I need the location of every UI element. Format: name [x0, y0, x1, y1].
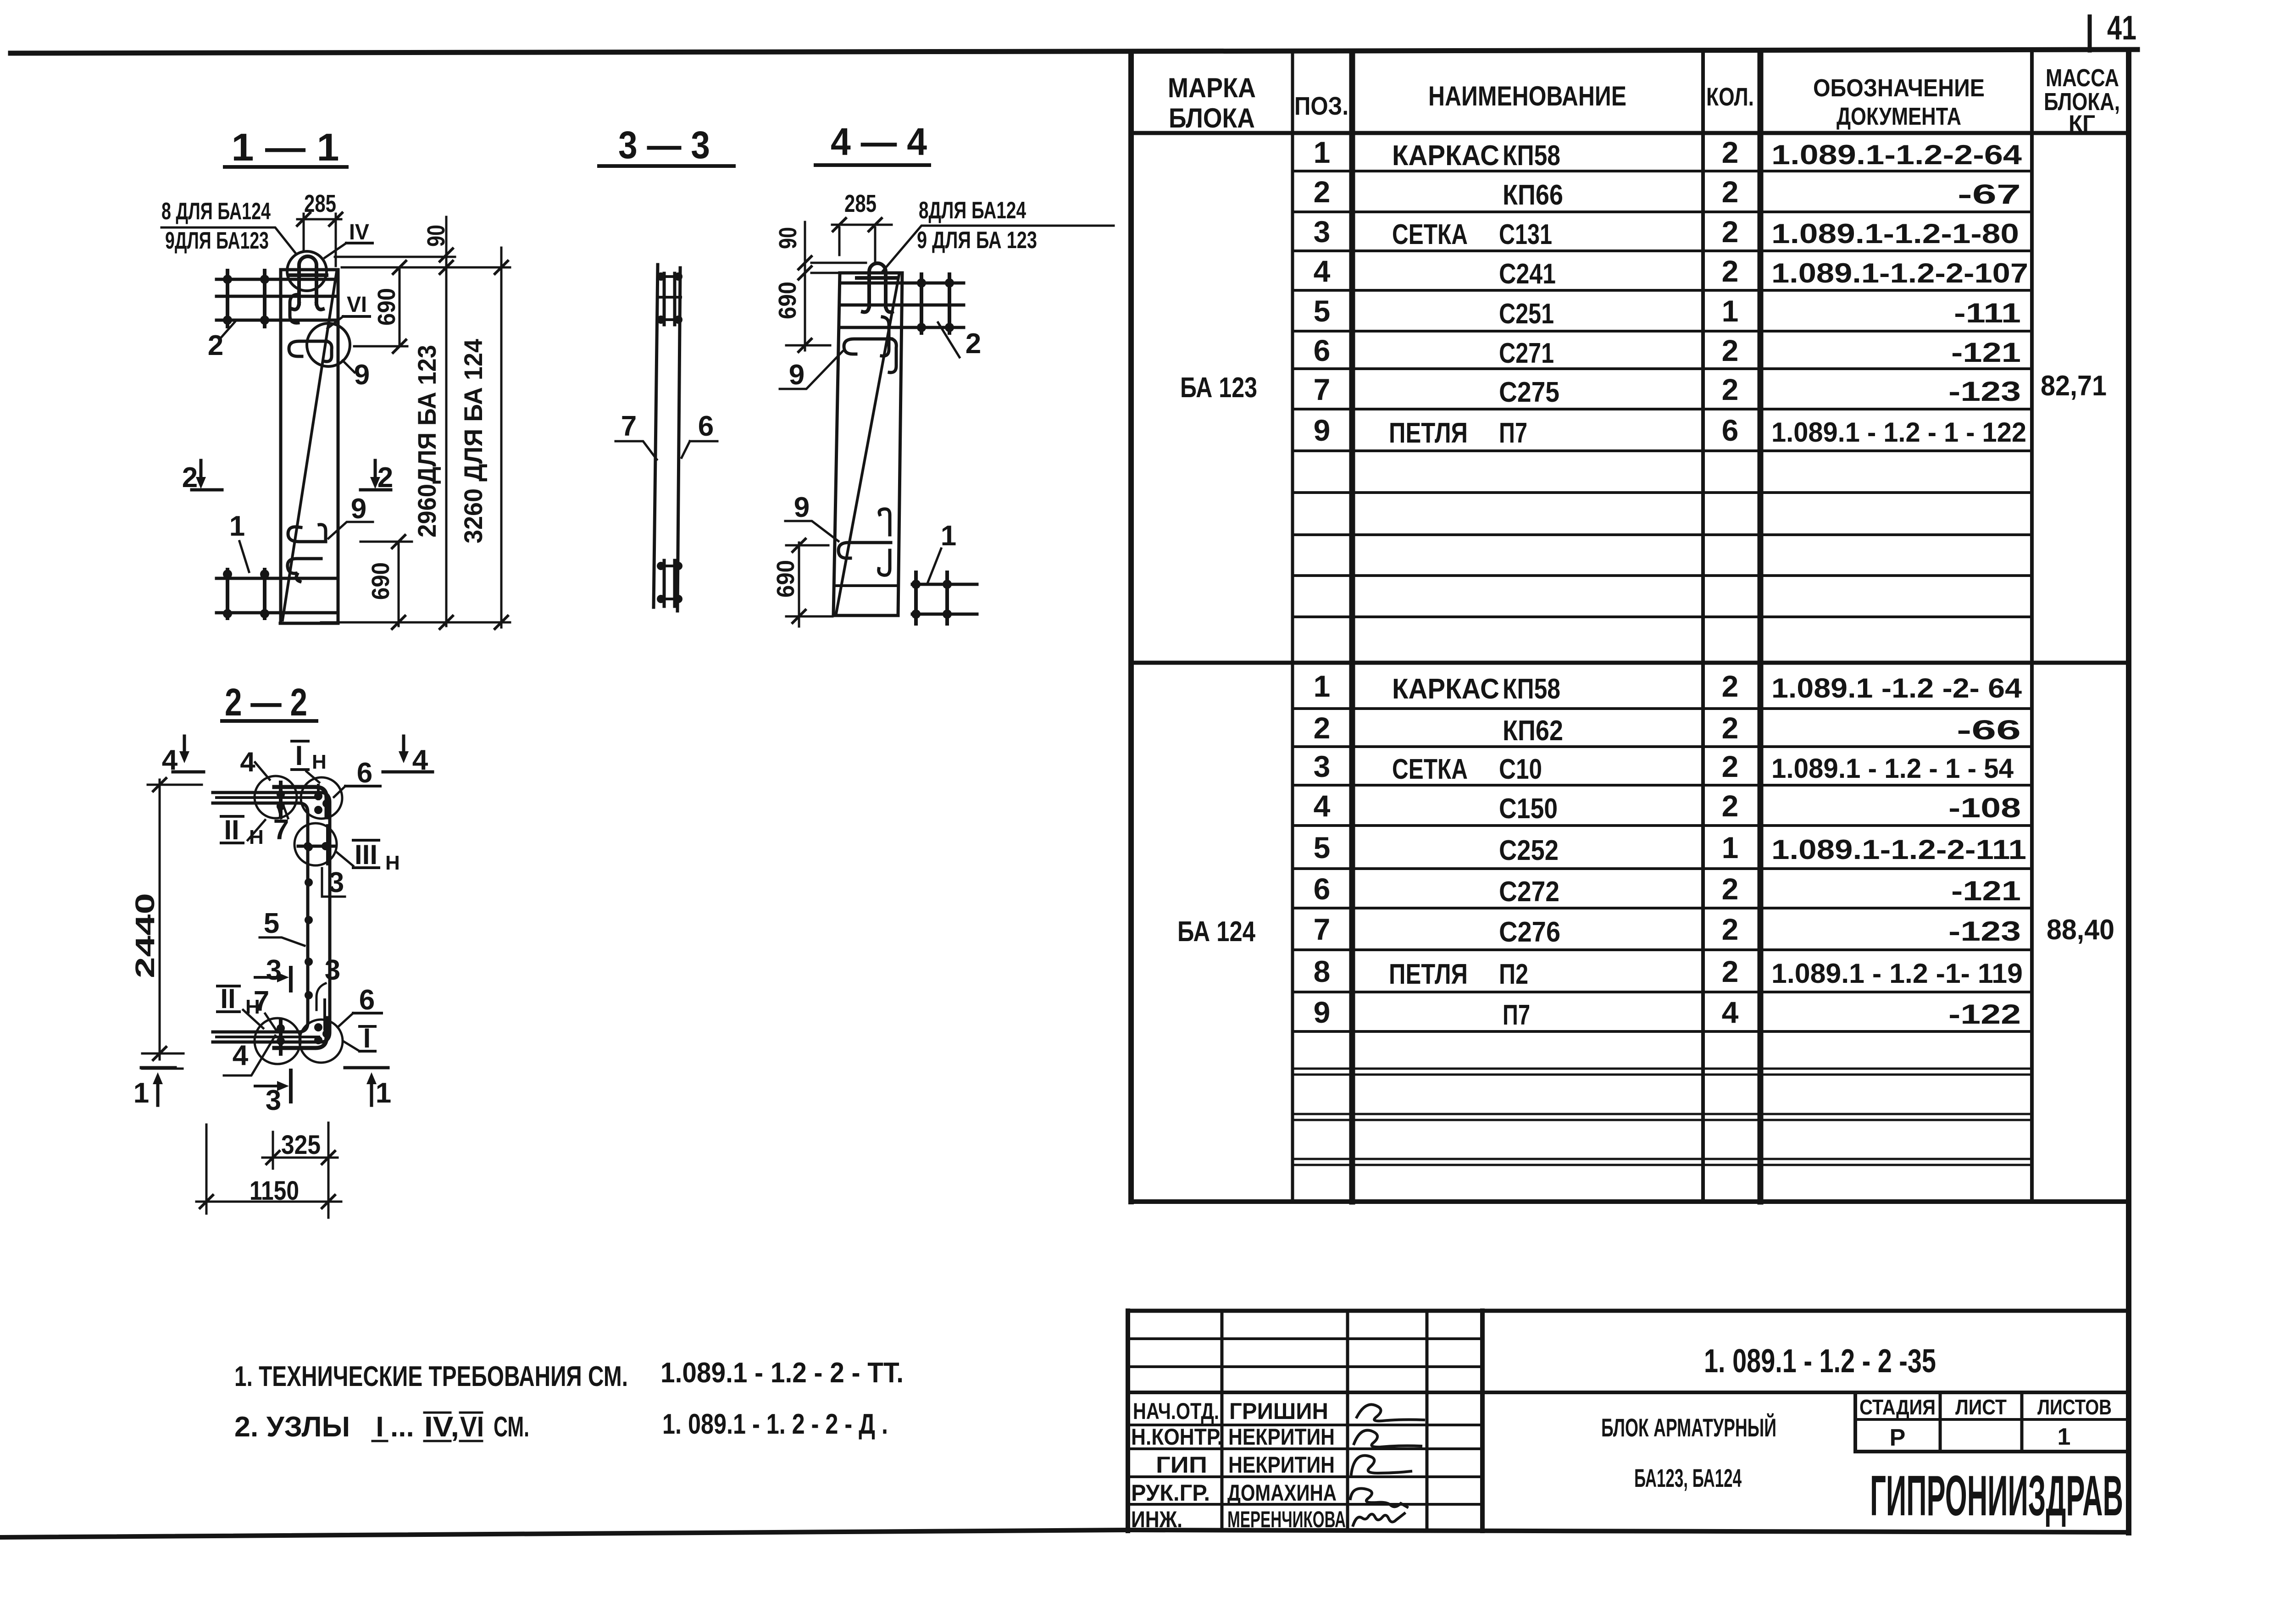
svg-text:2: 2 [1722, 135, 1739, 169]
svg-text:ОБОЗНАЧЕНИЕ: ОБОЗНАЧЕНИЕ [1813, 74, 1985, 102]
svg-text:9: 9 [1314, 413, 1331, 447]
svg-text:6: 6 [359, 984, 375, 1016]
svg-text:4: 4 [1722, 995, 1739, 1029]
svg-text:1.089.1 - 1.2 - 1 - 54: 1.089.1 - 1.2 - 1 - 54 [1771, 753, 2014, 784]
svg-text:2: 2 [1722, 669, 1739, 703]
S-hook mid [289, 341, 332, 361]
corner rebar loop bottom [274, 1018, 327, 1048]
svg-text:Н: Н [312, 751, 327, 773]
svg-text:БА 123: БА 123 [1180, 372, 1257, 404]
svg-text:690: 690 [774, 282, 801, 319]
svg-text:НАЧ.ОТД.: НАЧ.ОТД. [1133, 1398, 1219, 1424]
svg-text:8 ДЛЯ БА124: 8 ДЛЯ БА124 [161, 198, 271, 225]
svg-text:КП58: КП58 [1503, 673, 1560, 705]
corner rebar loop top [274, 787, 327, 817]
svg-text:С10: С10 [1499, 754, 1542, 785]
svg-text:Р: Р [1890, 1424, 1906, 1451]
bars in circle D [279, 1021, 283, 1054]
svg-text:7: 7 [254, 986, 269, 1017]
dim ticks [392, 249, 508, 629]
svg-text:2: 2 [1722, 175, 1739, 209]
row lines БА123 [1293, 171, 2032, 451]
svg-text:4: 4 [1314, 789, 1331, 823]
svg-text:БЛОК АРМАТУРНЫЙ: БЛОК АРМАТУРНЫЙ [1601, 1413, 1776, 1442]
svg-text:КГ: КГ [2069, 111, 2095, 136]
dim 285 line [297, 218, 341, 221]
svg-text:I: I [376, 1411, 383, 1443]
svg-text:С276: С276 [1499, 916, 1560, 948]
loop П7 top [857, 263, 897, 312]
signature squiggle 1 [1357, 1404, 1424, 1421]
svg-text:ИНЖ.: ИНЖ. [1131, 1507, 1182, 1532]
profile inner contour [213, 803, 308, 1032]
svg-text:2: 2 [1722, 333, 1739, 367]
svg-text:-121: -121 [1951, 876, 2021, 906]
top mesh bars (pos 2) [216, 279, 338, 320]
svg-text:1: 1 [2058, 1424, 2071, 1450]
left dim line 90/690 [804, 222, 806, 350]
svg-text:БА123, БА124: БА123, БА124 [1634, 1463, 1742, 1492]
svg-text:285: 285 [844, 190, 877, 217]
callout leader [161, 227, 296, 254]
svg-text:2440: 2440 [130, 893, 160, 978]
svg-text:МЕРЕНЧИКОВА: МЕРЕНЧИКОВА [1227, 1507, 1346, 1532]
svg-text:1.089.1-1.2-1-80: 1.089.1-1.2-1-80 [1771, 218, 2019, 249]
svg-text:1: 1 [1722, 831, 1739, 865]
svg-text:-123: -123 [1948, 916, 2021, 947]
column line Кол/Обозначение [1758, 53, 1764, 1202]
svg-text:90: 90 [774, 227, 802, 249]
detail circle C [294, 823, 337, 865]
bottom mesh bars (pos 1) [216, 578, 337, 613]
svg-text:2: 2 [1722, 749, 1739, 783]
svg-text:3: 3 [328, 867, 344, 898]
svg-text:РУК.ГР.: РУК.ГР. [1131, 1480, 1210, 1506]
column line Наименование/Кол [1701, 53, 1705, 1202]
svg-text:1. 089.1 - 1.2 - 2 -35: 1. 089.1 - 1.2 - 2 -35 [1704, 1343, 1936, 1380]
svg-text:6: 6 [1314, 333, 1331, 367]
svg-text:НЕКРИТИН: НЕКРИТИН [1228, 1452, 1335, 1478]
svg-text:2: 2 [1722, 789, 1739, 823]
svg-text:ГИПРОНИИЗДРАВ: ГИПРОНИИЗДРАВ [1870, 1464, 2123, 1528]
svg-text:4: 4 [233, 1040, 249, 1071]
top rebar ladder [664, 273, 675, 325]
dim 2440 [159, 780, 161, 1059]
svg-text:1: 1 [229, 510, 245, 542]
svg-text:1 — 1: 1 — 1 [232, 126, 339, 169]
empty row lines БА123 [1293, 493, 2032, 617]
svg-text:9ДЛЯ БА123: 9ДЛЯ БА123 [165, 227, 269, 254]
svg-text:1. ТЕХНИЧЕСКИЕ ТРЕБОВАНИЯ СМ.: 1. ТЕХНИЧЕСКИЕ ТРЕБОВАНИЯ СМ. [234, 1361, 628, 1392]
S-hook under mesh [882, 317, 889, 356]
svg-text:5: 5 [1314, 294, 1331, 328]
svg-text:1.089.1-1.2-2-64: 1.089.1-1.2-2-64 [1771, 139, 2022, 170]
bars in circle A [279, 782, 283, 816]
svg-text:4: 4 [1314, 254, 1331, 288]
svg-text:1.089.1 -1.2 -2- 64: 1.089.1 -1.2 -2- 64 [1771, 673, 2022, 704]
svg-text:ПЕТЛЯ: ПЕТЛЯ [1389, 417, 1468, 449]
parts table outer frame [1128, 53, 1134, 1202]
svg-text:1.089.1 - 1.2 - 1 - 122: 1.089.1 - 1.2 - 1 - 122 [1771, 417, 2026, 448]
svg-text:КОЛ.: КОЛ. [1706, 82, 1754, 111]
svg-text:-108: -108 [1948, 793, 2021, 823]
flange rebar bottom [216, 1036, 319, 1038]
signature squiggle 5 [1353, 1513, 1404, 1525]
svg-text:6: 6 [357, 757, 372, 789]
bottom mesh bars (pos 1) [912, 584, 977, 614]
title block verticals [1222, 1311, 1427, 1531]
extensions left [786, 263, 866, 345]
svg-text:СМ.: СМ. [494, 1411, 529, 1443]
svg-text:II: II [220, 983, 235, 1014]
svg-text:1.089.1-1.2-2-111: 1.089.1-1.2-2-111 [1771, 834, 2026, 865]
svg-text:КП62: КП62 [1503, 715, 1563, 747]
svg-text:1: 1 [1722, 294, 1739, 328]
bars in circle B [314, 792, 322, 800]
svg-text:СЕТКА: СЕТКА [1392, 754, 1468, 785]
svg-text:2: 2 [1722, 711, 1739, 745]
svg-text:ЛИСТОВ: ЛИСТОВ [2037, 1395, 2112, 1419]
svg-text:П7: П7 [1503, 999, 1530, 1031]
svg-text:-111: -111 [1954, 298, 2021, 328]
svg-text:1: 1 [1314, 135, 1331, 169]
svg-text:С241: С241 [1499, 258, 1556, 290]
svg-text:IV,: IV, [424, 1411, 459, 1443]
svg-text:2: 2 [1314, 711, 1331, 745]
dim line 690 lower [398, 542, 400, 626]
roman numeral bars [372, 1413, 482, 1441]
svg-text:П7: П7 [1499, 417, 1527, 449]
svg-text:IV: IV [349, 220, 369, 244]
svg-text:3 — 3: 3 — 3 [618, 123, 710, 166]
svg-text:Н.КОНТР.: Н.КОНТР. [1131, 1424, 1223, 1450]
dim line 3260 [500, 248, 503, 627]
profile outer contour [213, 793, 330, 1042]
svg-text:2 — 2: 2 — 2 [225, 681, 307, 724]
detail circle D [255, 1018, 300, 1064]
svg-text:БЛОКА: БЛОКА [1169, 103, 1255, 133]
svg-text:МАССА: МАССА [2046, 64, 2119, 92]
internal line near bottom [836, 584, 898, 587]
svg-text:Н: Н [385, 852, 400, 874]
extension lines right [321, 257, 510, 622]
svg-text:I: I [295, 740, 303, 771]
svg-text:9: 9 [789, 359, 805, 391]
detail circle B [301, 777, 342, 819]
svg-text:-66: -66 [1957, 715, 2021, 745]
svg-text:1: 1 [376, 1077, 391, 1109]
lower hooks [879, 509, 890, 535]
svg-text:3: 3 [1314, 215, 1331, 249]
svg-text:2. УЗЛЫ: 2. УЗЛЫ [234, 1411, 350, 1443]
svg-text:3: 3 [325, 954, 340, 986]
svg-text:82,71: 82,71 [2041, 370, 2107, 402]
svg-text:ГИП: ГИП [1156, 1452, 1207, 1478]
sheet top border [11, 50, 2137, 53]
svg-text:8ДЛЯ БА124: 8ДЛЯ БА124 [919, 197, 1026, 224]
callout leader [882, 226, 1114, 272]
svg-text:С272: С272 [1499, 876, 1559, 908]
svg-text:9: 9 [354, 359, 370, 391]
svg-text:5: 5 [1314, 831, 1331, 865]
svg-text:7: 7 [1314, 912, 1331, 946]
column line Обозначение/Масса [2030, 53, 2034, 1202]
svg-text:4: 4 [240, 747, 255, 777]
svg-text:МАРКА: МАРКА [1168, 72, 1256, 103]
svg-text:-122: -122 [1948, 999, 2021, 1030]
svg-text:-67: -67 [1958, 179, 2021, 210]
title block frame [1126, 1311, 1130, 1531]
column line Марка/Поз [1291, 53, 1294, 1202]
dim line 2960 [445, 217, 448, 626]
rebar 5 dots [305, 843, 313, 851]
svg-text:С251: С251 [1499, 298, 1554, 330]
svg-text:ДОМАХИНА: ДОМАХИНА [1227, 1480, 1337, 1506]
empty row lines БА124 (doubled) [1293, 1069, 2032, 1165]
title block top-left small rows [1128, 1339, 1482, 1367]
svg-text:1.089.1 - 1.2 -1- 119: 1.089.1 - 1.2 -1- 119 [1771, 958, 2023, 989]
svg-text:III: III [355, 839, 377, 870]
svg-text:9 ДЛЯ БА 123: 9 ДЛЯ БА 123 [917, 227, 1037, 254]
svg-text:СТАДИЯ: СТАДИЯ [1859, 1395, 1936, 1419]
detail circle A [255, 776, 297, 818]
signature squiggle 4 [1350, 1488, 1407, 1507]
svg-text:II: II [224, 815, 239, 845]
svg-text:7: 7 [1314, 372, 1331, 406]
page number tick [2088, 17, 2092, 50]
svg-text:2: 2 [965, 328, 981, 360]
svg-text:ПОЗ.: ПОЗ. [1294, 91, 1348, 120]
svg-text:2: 2 [1722, 372, 1739, 406]
svg-text:2: 2 [1722, 912, 1739, 946]
column outline 4-4 [833, 273, 902, 615]
svg-text:6: 6 [1722, 413, 1739, 447]
svg-text:БА 124: БА 124 [1177, 916, 1255, 948]
svg-text:2: 2 [1722, 254, 1739, 288]
section separator БА123/БА124 [1131, 661, 2129, 665]
wall edge lines [654, 265, 680, 611]
svg-text:5: 5 [264, 908, 279, 939]
signature rows [1128, 1425, 1482, 1504]
svg-text:КАРКАС: КАРКАС [1392, 140, 1499, 172]
top mesh bars (pos 2) [840, 283, 964, 327]
diagonal break line [283, 272, 337, 620]
dim line 690 upper [399, 267, 401, 346]
svg-text:1. 089.1 - 1. 2 - 2 - Д .: 1. 089.1 - 1. 2 - 2 - Д . [662, 1408, 888, 1440]
svg-text:С131: С131 [1499, 219, 1552, 250]
column line Поз/Наименование [1349, 53, 1355, 1202]
svg-text:2: 2 [1722, 215, 1739, 249]
svg-text:6: 6 [1314, 872, 1331, 906]
svg-text:9: 9 [351, 493, 366, 525]
стадия/лист box [1853, 1392, 1857, 1452]
svg-text:1: 1 [941, 520, 956, 552]
svg-text:VI: VI [460, 1411, 484, 1443]
signature squiggle 3 [1351, 1456, 1411, 1474]
svg-text:КАРКАС: КАРКАС [1392, 673, 1499, 705]
svg-text:ЛИСТ: ЛИСТ [1955, 1395, 2007, 1419]
svg-text:С150: С150 [1499, 793, 1558, 825]
svg-text:С271: С271 [1499, 338, 1554, 369]
svg-text:СЕТКА: СЕТКА [1392, 219, 1468, 250]
detail circle E [300, 1020, 343, 1063]
svg-text:690: 690 [367, 562, 394, 600]
main horizontal line under doc number [1128, 1391, 2129, 1394]
svg-text:4 — 4: 4 — 4 [831, 120, 927, 163]
svg-text:ДОКУМЕНТА: ДОКУМЕНТА [1837, 103, 1961, 130]
detail circle VI [307, 323, 350, 366]
loop П7 top (pos 8/9) [289, 256, 327, 310]
svg-text:НАИМЕНОВАНИЕ: НАИМЕНОВАНИЕ [1428, 81, 1626, 111]
svg-text:2: 2 [1314, 175, 1331, 209]
svg-text:90: 90 [422, 225, 450, 247]
svg-text:КП66: КП66 [1503, 179, 1563, 211]
svg-text:7: 7 [621, 410, 637, 442]
svg-text:325: 325 [281, 1130, 321, 1160]
svg-text:9: 9 [794, 492, 810, 523]
diagonal break line [836, 275, 899, 614]
svg-text:-123: -123 [1948, 376, 2021, 407]
svg-text:КП58: КП58 [1503, 140, 1560, 172]
dim 285 extensions [304, 214, 336, 266]
svg-text:VI: VI [347, 293, 367, 317]
mesh dots [223, 275, 232, 284]
svg-text:2960ДЛЯ БА 123: 2960ДЛЯ БА 123 [412, 345, 441, 538]
svg-text:С275: С275 [1499, 377, 1559, 408]
svg-text:6: 6 [698, 410, 714, 442]
row lines БА124 [1293, 709, 2032, 1031]
svg-text:...: ... [390, 1411, 414, 1443]
svg-text:88,40: 88,40 [2047, 914, 2114, 946]
svg-text:2: 2 [208, 330, 223, 361]
bottom hooks [288, 525, 326, 542]
svg-text:НЕКРИТИН: НЕКРИТИН [1228, 1424, 1335, 1450]
svg-text:ГРИШИН: ГРИШИН [1229, 1398, 1328, 1424]
bars in circle C [298, 845, 334, 848]
svg-text:-121: -121 [1951, 337, 2021, 368]
svg-text:9: 9 [1314, 995, 1331, 1029]
svg-text:2: 2 [1722, 872, 1739, 906]
svg-text:690: 690 [772, 560, 799, 598]
bars in circle E [314, 1023, 322, 1031]
svg-text:2: 2 [1722, 954, 1739, 988]
signature squiggle 2 [1354, 1430, 1421, 1447]
lower dim 690 [798, 543, 800, 626]
svg-text:690: 690 [373, 288, 400, 326]
svg-text:1: 1 [1314, 669, 1331, 703]
svg-text:ПЕТЛЯ: ПЕТЛЯ [1389, 959, 1468, 990]
bottom rebar ladder [664, 560, 675, 606]
svg-text:8: 8 [1314, 954, 1331, 988]
header bottom line [1131, 131, 2129, 135]
svg-text:3: 3 [1314, 749, 1331, 783]
C-hook [290, 294, 298, 323]
column outline 1-1 [280, 270, 338, 623]
svg-text:С252: С252 [1499, 835, 1559, 866]
sheet bottom border [0, 1530, 2129, 1537]
svg-text:1: 1 [133, 1077, 149, 1109]
svg-text:П2: П2 [1499, 959, 1528, 990]
detail circle IV [287, 251, 327, 291]
svg-text:1.089.1 - 1.2 - 2 - ТТ.: 1.089.1 - 1.2 - 2 - ТТ. [660, 1357, 904, 1389]
flange rebar top [216, 796, 319, 799]
svg-text:1.089.1-1.2-2-107: 1.089.1-1.2-2-107 [1771, 258, 2028, 288]
long hook with loop [844, 339, 896, 372]
svg-text:41: 41 [2107, 9, 2136, 47]
svg-text:3260 ДЛЯ БА 124: 3260 ДЛЯ БА 124 [459, 339, 488, 543]
